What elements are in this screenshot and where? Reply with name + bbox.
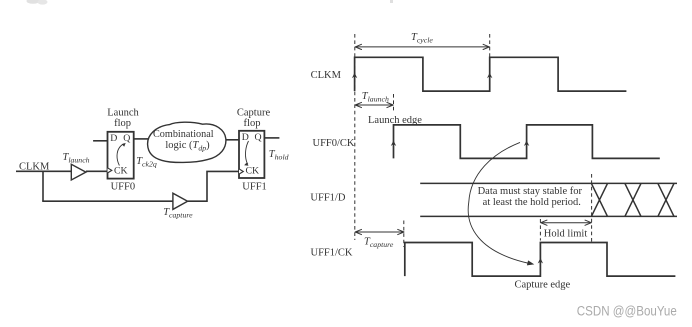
svg-text:CK: CK [114,166,128,177]
wire UFF0 Q to combinational cloud [134,138,148,140]
waveform UFF1/CK [405,243,676,277]
bus crossing X3 [658,183,674,216]
svg-text:UFF1: UFF1 [242,181,267,192]
buffer T_launch [71,164,86,180]
svg-text:UFF1/CK: UFF1/CK [311,248,353,259]
curved arrow inside UFF1 [245,141,248,164]
svg-text:flop: flop [114,118,131,129]
svg-text:CSDN @@BouYue: CSDN @@BouYue [577,304,677,320]
long curved arrow launch edge to capture edge [468,142,529,263]
flip-flop UFF0 box [108,132,134,179]
dimension arrow Hold limit [541,220,592,225]
svg-text:flop: flop [244,118,261,129]
dashed guide line at hold-limit right [591,174,593,242]
dashed guide line at T_capture right [403,221,405,248]
arrow on CLKM launch edge [352,73,357,79]
dashed guide line at T_launch right [393,94,395,113]
bus UFF1/D top line [420,182,677,184]
stray cropped text remnant top-left [27,0,48,5]
clock wedge of UFF1 [239,169,243,174]
svg-text:Capture: Capture [237,107,271,118]
svg-text:CLKM: CLKM [311,70,342,81]
dimension arrow T_launch [355,102,393,107]
dimension arrow T_capture [355,229,404,234]
wire capture buffer to UFF1 CK [188,171,239,202]
wire launch buffer to UFF0 CK [86,170,108,172]
curved arrow CK to Q inside UFF0 [117,144,124,166]
svg-text:Launch: Launch [107,107,139,118]
svg-text:Q: Q [123,133,130,144]
dimension arrow T_cycle [355,44,489,49]
svg-text:UFF0/CK: UFF0/CK [313,138,355,149]
wire branch down from CLKM node [42,171,44,201]
wire CLKM input horizontal [16,170,71,172]
dashed guide line left (launch clock edge) [354,34,356,240]
arrow on UFF1/CK capture edge [538,258,543,264]
wire cloud to UFF1 D [226,139,239,141]
bus crossing X2 [625,183,641,216]
svg-text:at least the hold period.: at least the hold period. [483,197,581,208]
waveform CLKM [355,57,627,91]
wire bottom rail to capture buffer [42,200,173,202]
svg-text:Q: Q [255,132,262,143]
arrow on UFF0/CK launch edge [391,140,396,146]
svg-text:UFF1/D: UFF1/D [310,193,345,204]
svg-text:D: D [110,133,117,144]
svg-text:Capture edge: Capture edge [515,280,571,291]
dashed guide line at hold-limit left [539,219,541,241]
svg-text:Combinational: Combinational [153,129,214,140]
arrow on UFF0/CK second rising edge [524,140,529,146]
arrow on CLKM second rising edge [487,73,492,79]
waveform UFF0/CK [394,125,660,158]
bus UFF1/D bottom line [420,215,677,217]
buffer T_capture [173,193,188,209]
wire UFF0 D input stub [93,140,107,142]
dashed guide line at T_cycle right [489,34,491,57]
svg-text:CK: CK [246,166,260,177]
svg-text:Hold limit: Hold limit [544,228,588,239]
svg-text:Data must stay stable for: Data must stay stable for [478,186,583,197]
flip-flop UFF1 box [239,131,264,178]
svg-text:UFF0: UFF0 [111,181,136,192]
stray cropped dot top-middle [390,0,393,3]
combinational logic cloud [148,122,226,162]
bus crossing X1 [591,183,607,216]
wire UFF1 Q output stub [264,137,279,139]
clock wedge of UFF0 [108,168,112,173]
